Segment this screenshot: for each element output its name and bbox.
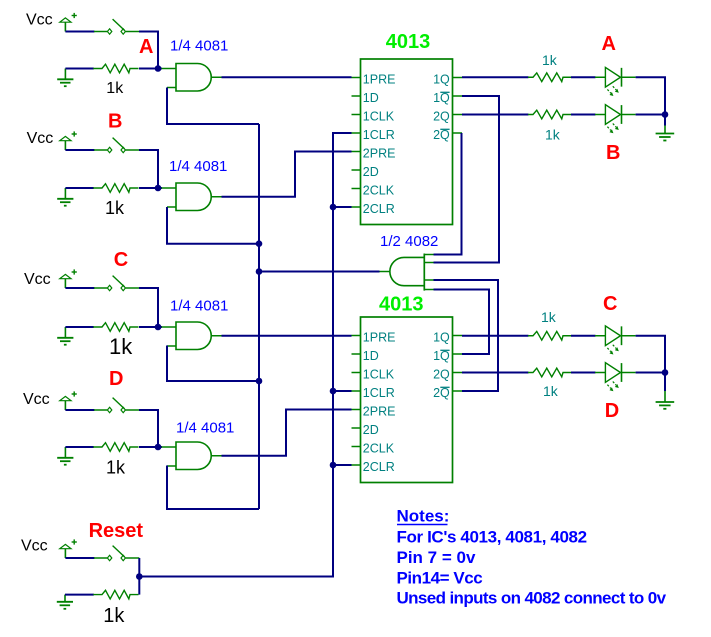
output stub of U-A 1/4 4081: [211, 76, 221, 78]
wire Vcc stem to switch (input A): [65, 31, 94, 33]
input stub B of U-D 1/4 4081: [167, 465, 176, 467]
svg-text:1CLK: 1CLK: [363, 368, 395, 382]
svg-text:1k: 1k: [103, 605, 125, 627]
wire gate D output to 2PRE (U4): [222, 410, 352, 456]
pin stub 1Qb (U3): [452, 95, 462, 97]
resistor 1k (LED B): [528, 110, 572, 119]
svg-text:2PRE: 2PRE: [363, 147, 396, 161]
ground (input D): [57, 447, 73, 465]
LED B: [595, 105, 636, 134]
junction (input A node): [155, 65, 162, 72]
switch (input D): [94, 398, 140, 413]
wire gate A output to 1PRE (U3): [222, 76, 352, 78]
svg-text:4013: 4013: [379, 294, 424, 316]
wire U3 1Qb to 4082 input 2: [434, 96, 500, 263]
pin stub 2Qb (U4): [452, 390, 462, 392]
svg-text:For IC's 4013, 4081, 4082: For IC's 4013, 4081, 4082: [397, 527, 587, 546]
wire Q output to resistor (LED C): [462, 335, 529, 337]
svg-text:1/4 4081: 1/4 4081: [170, 298, 228, 315]
wire resistor to gate (input D): [139, 446, 162, 448]
wire U3 2Qb to 4082 input 1: [434, 133, 462, 255]
svg-text:1PRE: 1PRE: [363, 73, 396, 87]
switch (Reset): [94, 546, 139, 561]
svg-text:2Q: 2Q: [433, 110, 450, 124]
pin stub 2CLR (U4): [352, 464, 362, 466]
svg-text:2Q: 2Q: [433, 386, 450, 400]
notes text block: [397, 507, 667, 608]
wire gate B input B feedback: [167, 207, 259, 244]
svg-text:B: B: [108, 111, 122, 133]
svg-text:1CLR: 1CLR: [363, 128, 395, 142]
input stub B of U-C 1/4 4081: [167, 345, 176, 347]
output stub of U-C 1/4 4081: [211, 335, 221, 337]
pin stub 2Q (U4): [452, 372, 462, 374]
svg-text:1k: 1k: [545, 127, 561, 143]
wire Q output to resistor (LED B): [462, 114, 529, 116]
wire ground to resistor (input A): [65, 68, 93, 70]
pin stub 1Q (U3): [452, 77, 462, 79]
wire CLR bus to 2CLR (U4): [333, 464, 352, 466]
svg-text:2D: 2D: [363, 165, 379, 179]
svg-text:Vcc: Vcc: [24, 271, 51, 288]
resistor 1k (input A): [93, 64, 138, 73]
svg-text:1Q: 1Q: [433, 331, 450, 345]
pin label 1Qb (U4): [433, 349, 450, 363]
svg-text:1k: 1k: [106, 80, 124, 97]
input stub A of U-C 1/4 4081: [162, 326, 177, 328]
svg-text:2CLR: 2CLR: [363, 460, 395, 474]
resistor 1k (LED D): [528, 368, 572, 377]
wire gate C output to 1PRE (U4): [222, 335, 352, 337]
pin stub 1CLR (U4): [352, 390, 362, 392]
AND gate U-A 1/4 4081: [176, 64, 211, 92]
wire gate D input B feedback: [167, 466, 259, 510]
svg-text:1D: 1D: [363, 91, 379, 105]
svg-text:Pin 7 = 0v: Pin 7 = 0v: [397, 548, 476, 567]
pin stub 2CLK (U4): [352, 446, 362, 448]
AND gate U-B 1/4 4081: [176, 183, 211, 211]
LED D: [595, 363, 636, 392]
svg-text:1D: 1D: [363, 349, 379, 363]
svg-text:4013: 4013: [386, 31, 431, 53]
wire cathode node to ground (C/D): [664, 373, 666, 392]
ground (LED C/D): [656, 391, 675, 409]
IC U3 4013 body: [361, 59, 453, 225]
pin stub 2PRE (U3): [352, 151, 362, 153]
svg-text:D: D: [605, 400, 619, 422]
wire CLR bus to 1CLR (U4): [333, 390, 352, 392]
input stub B of U-A 1/4 4081: [167, 87, 176, 89]
junction (CLR bus / U3 2CLR): [330, 204, 337, 211]
pin stub 2PRE (U4): [352, 409, 362, 411]
pin stub 1CLK (U4): [352, 372, 362, 374]
AND gate U-D 1/4 4081: [176, 442, 211, 470]
wire ground to resistor (input C): [65, 326, 93, 328]
wire Vcc stem to switch (input C): [65, 287, 94, 289]
wire resistor to gate (input A): [139, 68, 162, 70]
wire Q output to resistor (LED D): [462, 372, 529, 374]
svg-text:2PRE: 2PRE: [363, 405, 396, 419]
svg-text:1/2 4082: 1/2 4082: [380, 233, 438, 250]
junction (input C node): [155, 324, 162, 331]
wire switch to resistor junction (input C): [139, 288, 158, 327]
pin stub 1Qb (U4): [452, 353, 462, 355]
switch (input B): [94, 138, 140, 153]
svg-text:1CLK: 1CLK: [363, 110, 395, 124]
junction (CLR bus / U4 2CLR): [330, 462, 337, 469]
wire resistor to LED A: [571, 76, 596, 78]
svg-text:1PRE: 1PRE: [363, 331, 396, 345]
junction (input D node): [155, 444, 162, 451]
junction (LED A/B cathode node): [662, 111, 669, 118]
wire Vcc stem to switch (input D): [65, 409, 94, 411]
resistor 1k (input C): [93, 323, 138, 332]
input stub A of U-A 1/4 4081: [162, 68, 177, 70]
wire switch to resistor junction (input D): [139, 410, 158, 447]
wire CLR bus to 2CLR (U3): [333, 206, 352, 208]
AND gate U5 1/2 4082 (4-input, facing left): [380, 254, 434, 291]
svg-text:2D: 2D: [363, 423, 379, 437]
Vcc supply symbol (input D): [60, 391, 77, 410]
svg-text:2CLR: 2CLR: [363, 202, 395, 216]
svg-text:Pin14= Vcc: Pin14= Vcc: [397, 569, 483, 588]
svg-text:Vcc: Vcc: [27, 130, 54, 147]
svg-text:1k: 1k: [542, 52, 558, 68]
wire ground to resistor (input D): [65, 446, 93, 448]
pin stub 2Qb (U3): [452, 132, 462, 134]
ground (Reset): [57, 595, 73, 609]
resistor 1k (LED C): [528, 331, 572, 340]
wire ground to resistor (Reset): [65, 594, 94, 596]
junction (LED C/D cathode node): [662, 369, 669, 376]
wire enable bus vertical (node EN): [258, 124, 260, 509]
pin label 2Qb (U3): [433, 128, 450, 142]
wire gate B output to 2PRE (U3): [222, 152, 352, 197]
wire CLR bus (Reset net): [139, 133, 351, 577]
svg-text:1k: 1k: [106, 458, 126, 478]
wire resistor to LED B: [571, 114, 596, 116]
switch (input C): [94, 276, 140, 291]
pin stub 1D (U4): [352, 353, 362, 355]
wire resistor to gate (input B): [139, 187, 162, 189]
wire resistor to LED D: [571, 372, 596, 374]
svg-text:1k: 1k: [105, 198, 125, 218]
AND gate U-C 1/4 4081: [176, 322, 211, 350]
pin stub 2CLR (U3): [352, 206, 362, 208]
svg-text:A: A: [139, 36, 153, 58]
output stub of U-B 1/4 4081: [211, 196, 221, 198]
junction (input B node): [155, 185, 162, 192]
svg-text:D: D: [109, 368, 123, 390]
wire Vcc stem to switch (Reset): [65, 557, 94, 559]
svg-text:1/4 4081: 1/4 4081: [169, 158, 227, 175]
svg-text:1k: 1k: [543, 383, 559, 399]
resistor 1k (input B): [93, 184, 138, 193]
pin stub 2CLK (U3): [352, 188, 362, 190]
svg-text:1CLR: 1CLR: [363, 386, 395, 400]
resistor 1k (Reset): [93, 590, 138, 599]
wire Vcc stem to switch (input B): [65, 149, 94, 151]
input stub A of U-D 1/4 4081: [162, 446, 177, 448]
svg-text:2CLK: 2CLK: [363, 442, 395, 456]
junction (CLR bus / U4 1CLR): [330, 388, 337, 395]
wire U4 1Qb to 4082 input 4: [434, 290, 490, 355]
svg-text:1k: 1k: [541, 309, 557, 325]
wire switch down to reset node and resistor (Reset): [138, 558, 140, 595]
switch (input A): [94, 19, 140, 34]
wire U4 2Qb to 4082 input 3: [434, 280, 499, 391]
resistor 1k (LED A): [528, 73, 572, 82]
pin label 2Qb (U4): [433, 386, 450, 400]
pin stub 1PRE (U3): [352, 77, 362, 79]
wire LED A to common cathode: [636, 77, 665, 114]
wire 4082 output to EN bus: [259, 271, 380, 273]
svg-text:1k: 1k: [109, 334, 133, 359]
wire resistor to gate (input C): [139, 326, 162, 328]
svg-text:A: A: [602, 33, 616, 55]
LED A: [595, 67, 636, 96]
svg-text:1/4 4081: 1/4 4081: [176, 420, 234, 437]
svg-text:Vcc: Vcc: [26, 12, 53, 29]
svg-text:Reset: Reset: [89, 520, 144, 542]
Vcc supply symbol (Reset): [60, 539, 77, 558]
svg-text:1Q: 1Q: [433, 73, 450, 87]
svg-text:Vcc: Vcc: [23, 391, 50, 408]
svg-text:B: B: [606, 142, 620, 164]
pin stub 2Q (U3): [452, 114, 462, 116]
wire LED D to common cathode: [636, 372, 665, 374]
junction (EN bus / B feedback): [256, 240, 263, 247]
resistor 1k (input D): [93, 443, 138, 452]
wire resistor to LED C: [571, 335, 596, 337]
Vcc supply symbol (input B): [60, 131, 77, 150]
svg-text:Unsed inputs on 4082 connect t: Unsed inputs on 4082 connect to 0v: [397, 589, 667, 608]
IC U4 4013 body: [361, 317, 453, 483]
input stub B of U-B 1/4 4081: [167, 206, 176, 208]
wire gate A input B feedback: [167, 88, 259, 125]
svg-text:1Q: 1Q: [433, 349, 450, 363]
wire ground to resistor (input B): [65, 187, 93, 189]
ground (input B): [57, 188, 73, 206]
pin stub 1D (U3): [352, 95, 362, 97]
svg-text:1/4 4081: 1/4 4081: [170, 38, 228, 55]
Vcc supply symbol (input C): [60, 269, 77, 288]
svg-text:2Q: 2Q: [433, 368, 450, 382]
pin stub 2D (U4): [352, 427, 362, 429]
wire cathode node to ground (A/B): [664, 115, 666, 126]
output stub of U-D 1/4 4081: [211, 455, 221, 457]
wire switch to resistor junction (input B): [139, 150, 158, 188]
wire Q output to resistor (LED A): [462, 76, 529, 78]
wire LED B to common cathode: [636, 114, 665, 116]
svg-text:Vcc: Vcc: [21, 538, 48, 555]
wire gate C input B feedback: [167, 346, 259, 382]
pin stub 1CLK (U3): [352, 114, 362, 116]
junction (EN bus / 4082 output): [256, 268, 263, 275]
svg-text:1Q: 1Q: [433, 91, 450, 105]
pin stub 1Q (U4): [452, 335, 462, 337]
pin stub 1PRE (U4): [352, 335, 362, 337]
input stub A of U-B 1/4 4081: [162, 187, 177, 189]
svg-text:C: C: [603, 293, 617, 315]
ground (input A): [57, 69, 73, 87]
Vcc supply symbol (input A): [60, 13, 77, 32]
svg-text:2CLK: 2CLK: [363, 184, 395, 198]
svg-text:2Q: 2Q: [433, 128, 450, 142]
LED C: [595, 326, 636, 355]
wire LED C to common cathode: [636, 336, 665, 373]
pin stub 1CLR (U3): [352, 132, 362, 134]
pin stub 2D (U3): [352, 169, 362, 171]
pin label 1Qb (U3): [433, 91, 450, 105]
ground (input C): [57, 327, 73, 345]
svg-text:C: C: [114, 249, 128, 271]
wire switch to resistor junction (input A): [139, 32, 158, 69]
ground (LED A/B): [656, 126, 675, 141]
junction (Reset node): [136, 573, 143, 580]
svg-text:Notes:: Notes:: [397, 507, 450, 526]
junction (EN bus / C feedback): [256, 378, 263, 385]
